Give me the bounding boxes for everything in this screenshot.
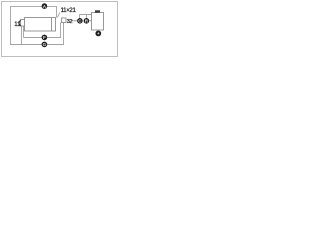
svg-text:F: F <box>43 35 46 40</box>
svg-text:G: G <box>43 42 47 47</box>
svg-text:32: 32 <box>67 19 73 25</box>
svg-text:11: 11 <box>14 21 21 28</box>
svg-text:+: + <box>97 31 100 36</box>
svg-text:11×21: 11×21 <box>61 8 77 14</box>
